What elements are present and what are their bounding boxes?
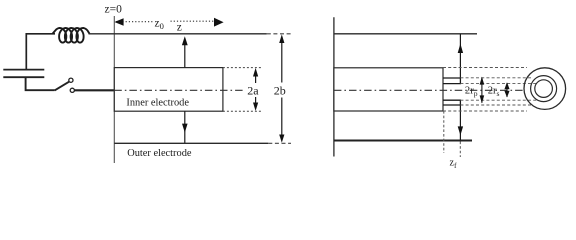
projection dashed line sleeve inner top (460, 83, 537, 85)
dimension z0 left arrowhead (114, 18, 123, 26)
dimension 2a arrow lower (255, 97, 257, 104)
dimension z0 dotted line left part (116, 21, 154, 23)
right figure outer electrode bottom line (334, 140, 472, 142)
capacitor C1 top plate (3, 69, 44, 71)
current sheath arrow up (left figure) (184, 44, 186, 68)
capacitor C1 bottom plate (3, 76, 44, 78)
end view sleeve outer circle (531, 76, 557, 102)
wire capacitor top lead to inductor (26, 34, 55, 70)
dimension 2a arrow upper (255, 76, 257, 84)
right figure back wall (333, 17, 335, 156)
node z=0 reference line (113, 16, 115, 163)
wire outer electrode top (left figure) (89, 33, 267, 35)
projection dashed line rod bottom edge (443, 110, 527, 112)
switch S1 contact circle upper (69, 78, 73, 82)
dotted extension of inner electrode bottom edge (223, 110, 262, 112)
muzzle arrow down (right figure) (459, 105, 461, 141)
dashed vertical rod end (zf left bound) (443, 111, 445, 153)
right figure outer electrode top line (334, 33, 477, 35)
inner electrode rectangle (left figure) (114, 68, 223, 112)
dimension z0 right arrowhead (214, 18, 224, 27)
svg-text:Inner electrode: Inner electrode (126, 98, 189, 109)
switch S1 contact circle lower (70, 88, 74, 92)
svg-text:Outer electrode: Outer electrode (127, 148, 192, 159)
right figure inner electrode rod (334, 68, 443, 111)
projection dashed line sleeve inner bottom (460, 99, 537, 101)
sleeve bottom wall (443, 100, 460, 105)
dimension 2rp arrow (481, 78, 483, 103)
wire capacitor bottom lead (26, 77, 55, 90)
dimension 2b arrow lower (281, 98, 283, 136)
right figure axis centerline (334, 89, 525, 91)
wire switch to inner electrode feed (75, 89, 115, 91)
wire outer electrode top dashed extension (267, 33, 292, 35)
outer electrode bottom line (left figure) (114, 142, 268, 144)
muzzle arrow up (right figure) (459, 34, 461, 78)
inductor L1 (53, 28, 90, 43)
projection dashed line rod top edge (443, 67, 527, 69)
switch S1 blade (55, 82, 70, 91)
svg-text:z: z (177, 21, 182, 33)
outer electrode bottom dashed extension (268, 142, 291, 144)
dimension 2b arrow upper (281, 42, 283, 83)
svg-text:z=0: z=0 (105, 4, 123, 16)
projection dashed line sleeve outer top (460, 77, 533, 79)
svg-text:2a: 2a (247, 84, 259, 98)
current sheath arrow down (left figure) (184, 111, 186, 143)
dimension z0 dotted line right part (171, 20, 214, 22)
dotted extension of inner electrode top edge (223, 67, 262, 69)
axis centerline (left figure) (114, 89, 243, 91)
dashed vertical sleeve end (zf right bound) (459, 142, 461, 158)
end view sleeve inner circle (535, 80, 553, 98)
sleeve top wall (443, 78, 460, 84)
end view outer circle (524, 68, 566, 110)
svg-text:2b: 2b (274, 84, 286, 98)
projection dashed line sleeve outer bottom (460, 104, 533, 106)
dimension 2rs arrow (506, 83, 508, 97)
